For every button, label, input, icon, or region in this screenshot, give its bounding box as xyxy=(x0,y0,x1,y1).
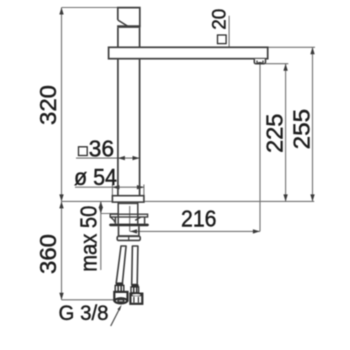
right hose xyxy=(132,246,138,285)
left nut bottom ellipse xyxy=(115,298,128,303)
gasket bar (dark) xyxy=(109,224,149,227)
arrow 54 right xyxy=(137,185,144,189)
arrow 360 bottom xyxy=(59,293,63,300)
left hose ferrule xyxy=(115,285,124,291)
body top cap line xyxy=(117,25,141,28)
arrow 36 left xyxy=(118,156,125,160)
leader arrow G 3/8 xyxy=(117,305,121,311)
svg-text:216: 216 xyxy=(181,206,217,232)
mounting washer bracket xyxy=(110,214,147,217)
threaded shank below deck xyxy=(117,202,119,224)
right hose ferrule xyxy=(131,287,139,293)
deck surface line right segment xyxy=(144,200,314,202)
washer left tab xyxy=(110,217,114,222)
washer right tab xyxy=(135,217,141,220)
right nut top glint xyxy=(132,294,140,296)
aerator housing xyxy=(254,59,265,64)
left hose nut xyxy=(114,292,127,301)
svg-text:360: 360 xyxy=(35,234,61,274)
left hose crimp band xyxy=(116,283,124,285)
dimension line 320 xyxy=(61,8,63,202)
dimension line 216 xyxy=(130,230,260,232)
extension line top (handle top to 320 dim) xyxy=(62,7,118,9)
faucet body lower column xyxy=(117,59,119,196)
arrow 20 down xyxy=(227,52,231,59)
faucet body upper column xyxy=(117,28,119,47)
extension line aerator bottom (225) xyxy=(266,63,289,65)
svg-text:36: 36 xyxy=(89,135,115,161)
leader line G 3/8 xyxy=(111,308,120,326)
svg-text:320: 320 xyxy=(35,85,61,125)
extension line 54 left xyxy=(111,185,113,196)
hose coupling block xyxy=(117,236,140,240)
dimension line 225 xyxy=(285,64,287,202)
arrow 225 top xyxy=(283,64,287,71)
left nut inner ellipse xyxy=(118,300,124,302)
extension line spout top (255) xyxy=(268,46,315,48)
right hose nut xyxy=(130,294,142,304)
deck surface line left segment xyxy=(62,200,113,202)
base flange xyxy=(112,196,143,202)
dimension line 20 (spout thickness) xyxy=(228,16,230,59)
arrow 36 right xyxy=(133,156,140,160)
right nut top band xyxy=(131,294,143,297)
square symbol 36 xyxy=(79,147,88,156)
faucet handle lever xyxy=(118,8,140,27)
lower connection box xyxy=(119,226,139,236)
spout bar xyxy=(109,47,268,58)
extension line 54 right xyxy=(143,185,145,196)
extension line faucet axis xyxy=(129,206,131,231)
arrow 320 top xyxy=(59,8,63,15)
square symbol 20 xyxy=(218,35,227,44)
svg-text:225: 225 xyxy=(261,114,287,154)
arrow 255 bottom xyxy=(310,194,314,201)
svg-text:max 50: max 50 xyxy=(75,206,101,272)
deck bottom line xyxy=(101,213,118,215)
arrow 225 bottom xyxy=(283,194,287,201)
extension line outlet axis (216/225 vertical from aerator) xyxy=(259,64,261,232)
arrow 360 top xyxy=(59,201,63,208)
arrow 54 left xyxy=(112,185,119,189)
shank top edge xyxy=(118,203,138,205)
dimension line max 50 xyxy=(100,201,102,270)
svg-text:ø 54: ø 54 xyxy=(74,164,117,190)
dimension line 255 xyxy=(312,47,314,201)
coupling mid line xyxy=(128,236,130,240)
aerator outlet xyxy=(257,61,263,64)
svg-text:20: 20 xyxy=(209,9,231,30)
left hose xyxy=(116,246,126,283)
dimension line square-36 xyxy=(76,157,140,159)
handle lever diagonal xyxy=(118,20,128,26)
arrow 255 top xyxy=(310,47,314,54)
right hose crimp band xyxy=(131,284,138,287)
arrow 216 left xyxy=(130,229,137,233)
svg-text:G 3/8: G 3/8 xyxy=(59,301,109,325)
arrow max50 bottom xyxy=(99,207,103,214)
arrow max50 top xyxy=(99,201,103,208)
arrow 20 up xyxy=(227,47,231,54)
right ferrule ribs xyxy=(133,287,135,292)
clamp body xyxy=(114,217,116,223)
svg-text:255: 255 xyxy=(288,109,314,150)
dimension line dia-54 xyxy=(75,186,144,188)
arrow 216 right xyxy=(253,229,260,233)
left ferrule ribs xyxy=(117,286,119,291)
right nut facet lines xyxy=(133,297,135,303)
dimension line 360 xyxy=(61,201,63,299)
extension line 360 bottom (to hose nut) xyxy=(62,299,119,301)
arrow 320 bottom xyxy=(59,194,63,201)
aerator mesh xyxy=(258,62,262,64)
